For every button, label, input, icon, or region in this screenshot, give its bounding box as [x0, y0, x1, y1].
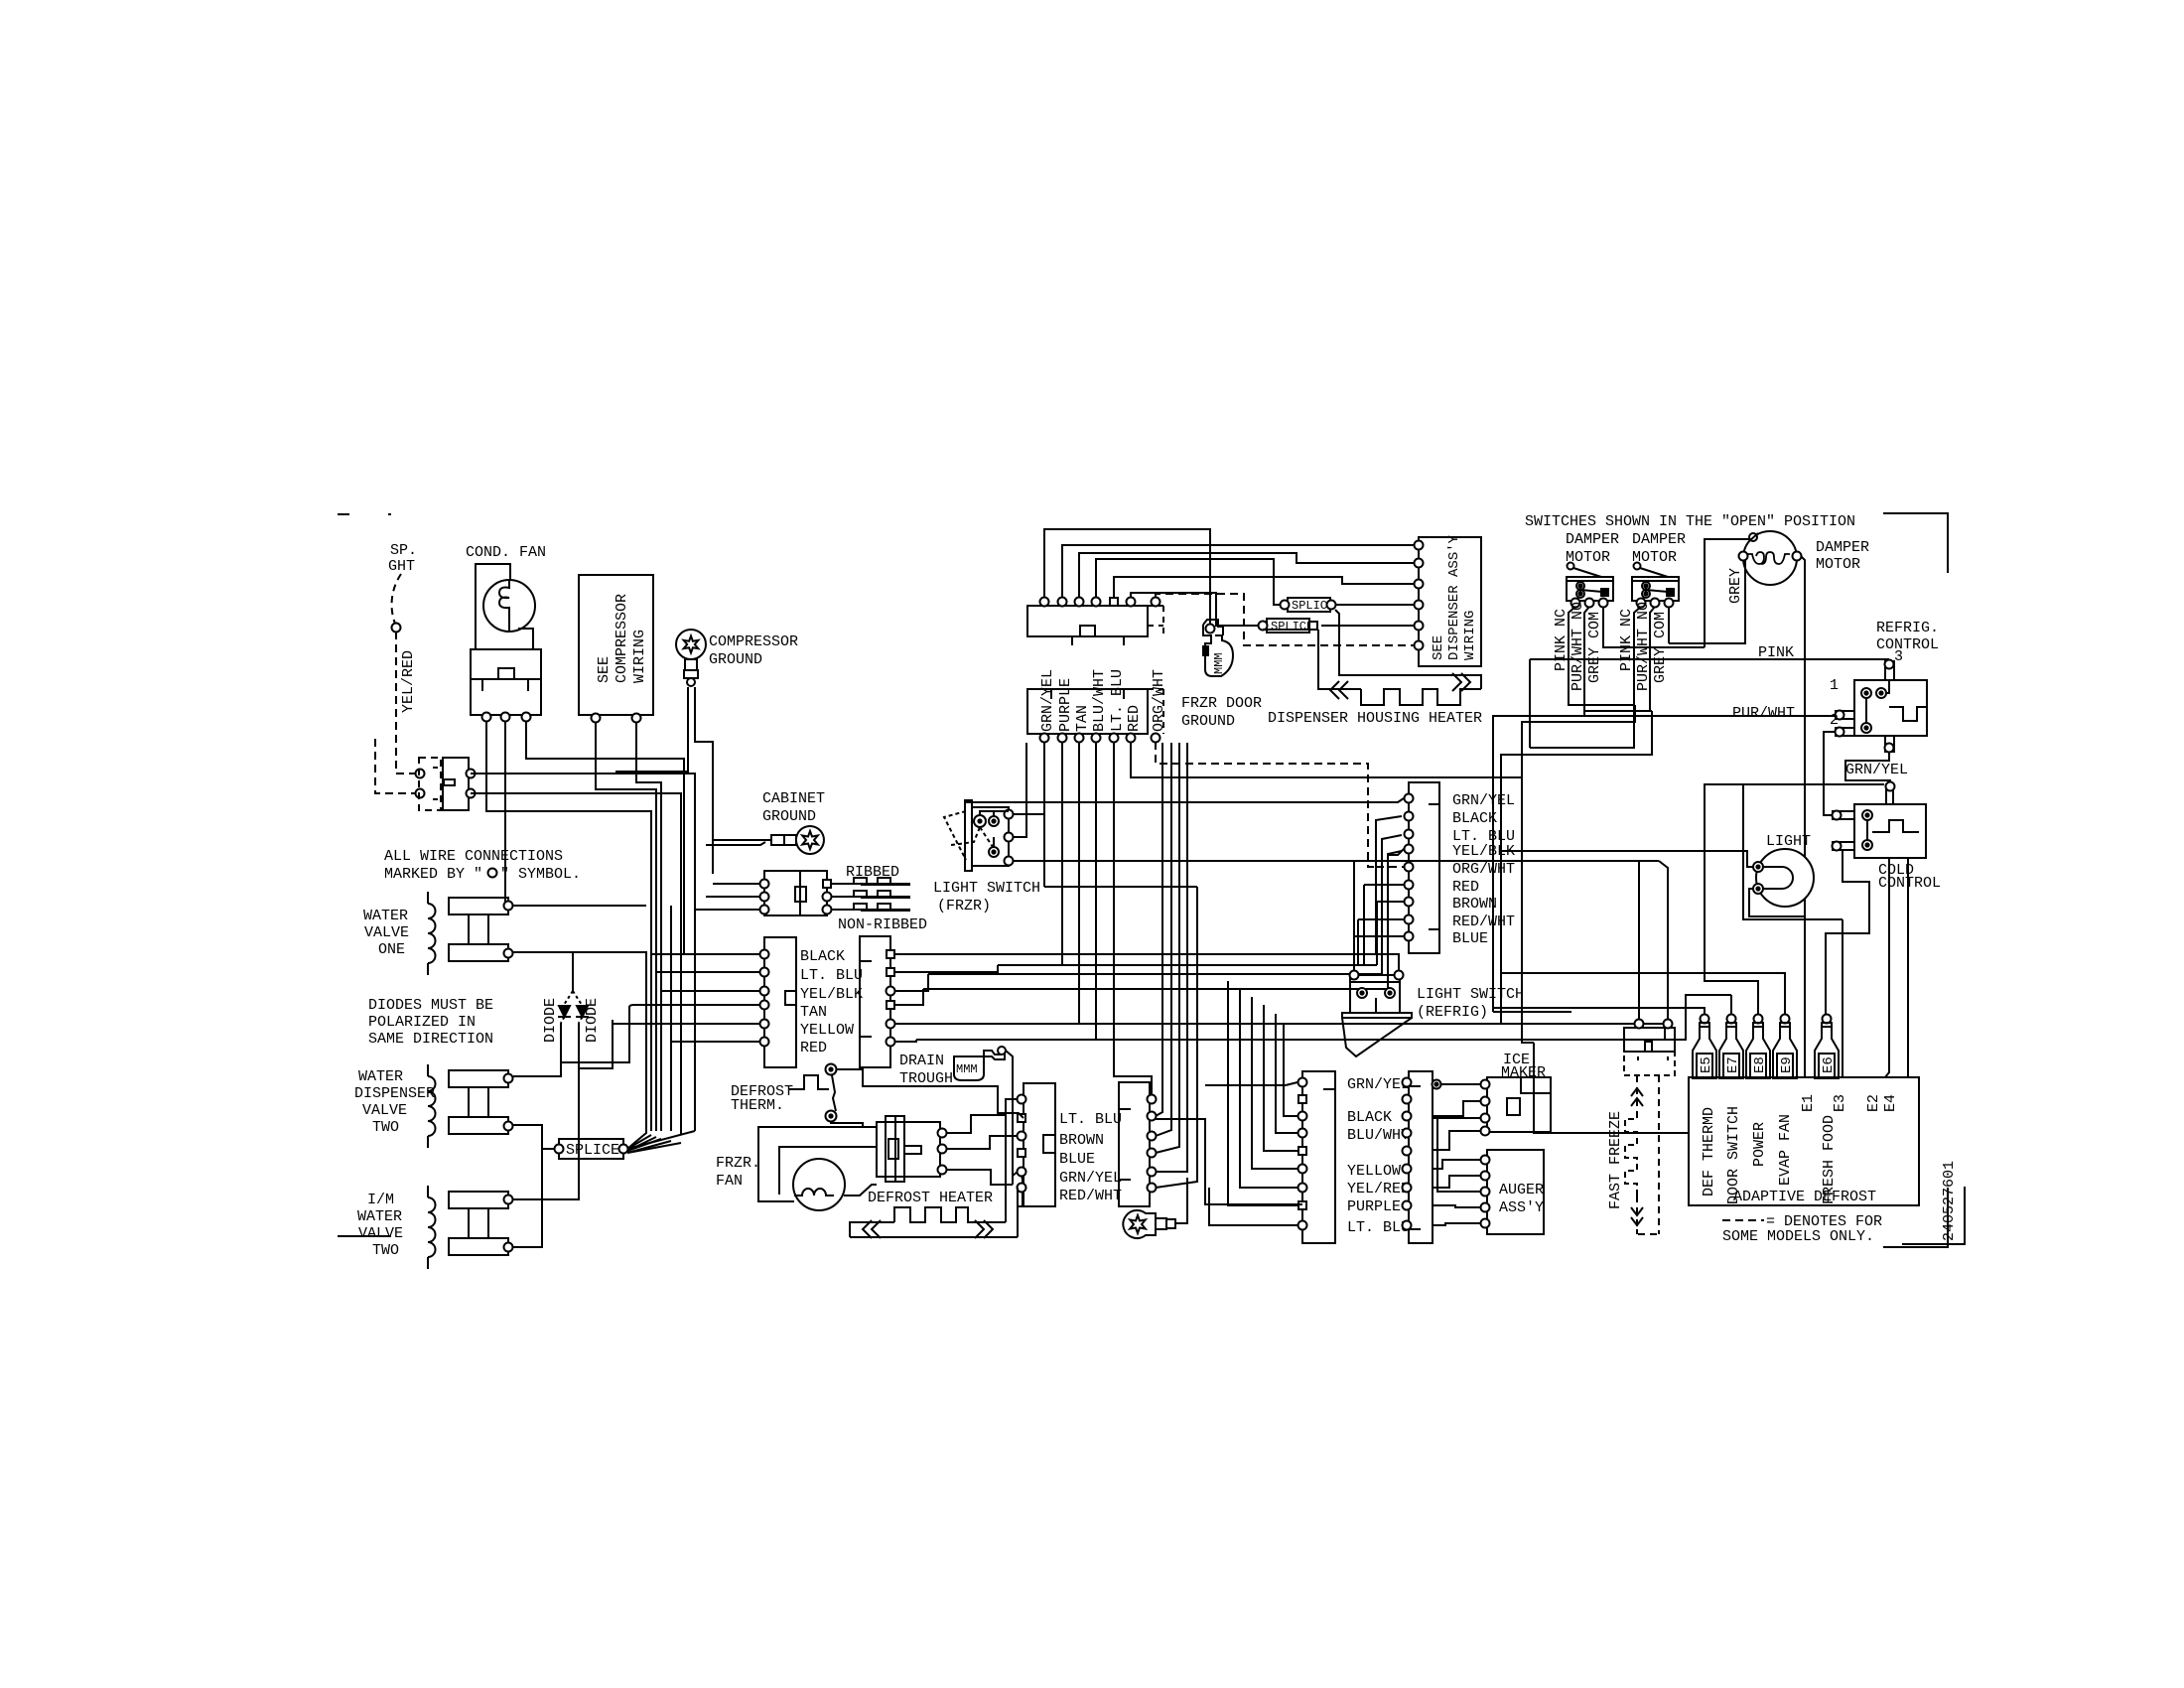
dispenser pin 6: [1415, 641, 1424, 650]
svg-text:SPLICE: SPLICE: [566, 1142, 619, 1159]
ribbed wire bullets: [831, 878, 910, 912]
net label RED v: [1126, 705, 1143, 732]
wire light t2: [1749, 889, 1805, 916]
wire pin RED down: [1131, 742, 1522, 777]
label E4: [1882, 1094, 1899, 1112]
label DEF THERMD: [1701, 1107, 1717, 1196]
defrost therm contacts: [826, 1064, 837, 1122]
lsf inner pin 1: [974, 815, 986, 827]
wire yellow link: [613, 1020, 615, 1024]
disp switch dashed terminal 2: [416, 789, 425, 798]
svg-text:E2: E2: [1865, 1094, 1882, 1112]
wire bc in 5: [1264, 1005, 1297, 1151]
line cord connector: [764, 871, 827, 915]
svg-text:ORG/WHT: ORG/WHT: [1151, 669, 1167, 732]
wire pin LT.BLU down: [1114, 742, 1152, 1095]
label BLACK bc: [1347, 1109, 1392, 1126]
dhB tick 1: [1119, 1108, 1131, 1110]
wire damper3 left: [1669, 560, 1745, 643]
wire sw2 t1: [1530, 607, 1641, 748]
right B pin 2: [887, 968, 894, 976]
wire heater plug bottom up: [1018, 1176, 1023, 1237]
evap fan ground lug: [1123, 1210, 1175, 1238]
svg-text:CONTROL: CONTROL: [1876, 636, 1939, 653]
label PINK NC 1: [1553, 609, 1570, 671]
damper motor 3 terminal slash: [1749, 533, 1758, 541]
label PINK NC 2: [1618, 609, 1635, 671]
label PUR/WHT NO 2: [1635, 602, 1652, 691]
part number 240527601: [1941, 1161, 1958, 1241]
wire GRN/YEL jog: [1845, 752, 1890, 782]
svg-text:E5: E5: [1699, 1056, 1714, 1073]
svg-text:MAKER: MAKER: [1501, 1064, 1546, 1081]
svg-text:POLARIZED IN: POLARIZED IN: [368, 1014, 476, 1031]
label SEE DISPENSER ASS'Y WIRING: [1431, 534, 1478, 660]
rc step: [1889, 707, 1927, 721]
wire v1206 up: [1196, 887, 1198, 1053]
bcA pin 5: [1298, 1147, 1306, 1155]
fast freeze dashed resistor: [1625, 1112, 1637, 1196]
splice left terminal 2: [619, 1145, 628, 1154]
cond fan relay tick 2: [527, 679, 529, 691]
label NON-RIBBED: [838, 916, 927, 933]
dh connector B: [1119, 1082, 1150, 1206]
label PURPLE bc: [1347, 1198, 1401, 1215]
wire to line cord pin3: [695, 909, 760, 911]
adaptive defrost box: [1689, 1077, 1919, 1205]
ice pin 2: [1481, 1097, 1490, 1106]
label GREY COM 1: [1586, 612, 1603, 683]
disp light switch body: [443, 758, 469, 810]
heater plug terminal 2: [938, 1145, 947, 1154]
label PUR/WHT NO 1: [1570, 602, 1586, 691]
label SPLICE 2: [1292, 599, 1334, 613]
wire lsr t1 up: [1353, 861, 1355, 971]
svg-text:DISPENSER ASS'Y: DISPENSER ASS'Y: [1446, 534, 1462, 660]
wire 1533 vertical: [1522, 777, 1534, 1043]
auger pin 5: [1481, 1219, 1490, 1228]
frame tick bottom-left: [338, 1235, 391, 1237]
dhB pin 1: [1148, 1095, 1157, 1104]
label YEL/BLK rc: [1452, 843, 1515, 860]
label COLD CONTROL: [1878, 862, 1941, 892]
label WATER DISPENSER VALVE TWO: [354, 1068, 435, 1136]
svg-text:LIGHT: LIGHT: [1766, 833, 1811, 850]
rc pin BLUE: [1405, 932, 1414, 941]
label ORG/WHT rc: [1452, 861, 1515, 878]
label WATER VALVE ONE: [363, 908, 409, 958]
rc pin YEL/BLK: [1405, 845, 1414, 854]
wire E3 long: [1842, 919, 1843, 1077]
lsr terminal 2: [1395, 971, 1404, 980]
svg-text:RED: RED: [800, 1040, 827, 1056]
label E3: [1832, 1094, 1848, 1112]
line cord pin 1: [760, 880, 832, 889]
heater plug body: [877, 1116, 940, 1182]
svg-text:FRZR.: FRZR.: [716, 1155, 760, 1172]
lower box dashed ext: [1148, 689, 1163, 734]
bcA pin 2: [1298, 1095, 1306, 1103]
wire relay pin2b up: [1664, 1024, 1666, 1040]
left A pin RED: [760, 1038, 769, 1047]
wire IMWV bottom: [513, 1149, 542, 1247]
cond fan frame right: [518, 629, 533, 649]
svg-text:E7: E7: [1725, 1056, 1741, 1073]
wire WV1 bottom: [513, 952, 573, 991]
svg-text:DISPENSER HOUSING HEATER: DISPENSER HOUSING HEATER: [1268, 710, 1482, 727]
terminal blade E7: [1719, 1015, 1743, 1079]
defrost relay pin 2: [1664, 1020, 1673, 1029]
right harness connector B: [860, 936, 890, 1067]
splice2 terminal R: [1327, 601, 1336, 610]
wire dhB2 up: [1156, 743, 1162, 1116]
wire mid h7: [1377, 902, 1402, 965]
lsf inner pin 2: [989, 816, 999, 826]
svg-text:DEF THERMD: DEF THERMD: [1701, 1107, 1717, 1196]
upper pin TAN: [1075, 598, 1084, 607]
svg-text:BROWN: BROWN: [1452, 896, 1497, 913]
wire B1: [894, 953, 937, 955]
upper pin PURPLE: [1058, 598, 1067, 607]
wire to line cord pin1: [713, 883, 760, 885]
heater chevrons right: [1452, 673, 1470, 691]
svg-text:E6: E6: [1821, 1056, 1837, 1073]
lsr terminal 1: [1350, 971, 1359, 980]
wire bc in 1: [1205, 1082, 1297, 1085]
svg-text:WIRING: WIRING: [631, 630, 648, 683]
light switch frzr wedge: [944, 811, 966, 860]
dispenser pin 2: [1415, 559, 1424, 568]
wire comp t2 down: [636, 722, 661, 1131]
label GRN/YEL rc: [1452, 792, 1515, 809]
lsf inner wiring: [980, 811, 1009, 846]
wire ice 1: [1433, 1080, 1482, 1089]
svg-text:GROUND: GROUND: [1181, 713, 1235, 730]
wire E9 feeder: [1501, 973, 1785, 1019]
upper pin LT.BLU: [1110, 598, 1118, 606]
wire mid h3: [928, 835, 1402, 974]
cold control top stub: [1886, 782, 1895, 805]
lsr inner tick: [1375, 998, 1377, 1013]
svg-text:FRZR DOOR: FRZR DOOR: [1181, 695, 1262, 712]
lsf inner pin 3: [989, 847, 999, 857]
wire run PURPLE top: [1062, 545, 1419, 597]
label YELLOW bc: [1347, 1163, 1401, 1180]
svg-text:ADAPTIVE DEFROST: ADAPTIVE DEFROST: [1733, 1189, 1876, 1205]
wire damper3 right down: [1801, 556, 1805, 1077]
wire lsf right3: [1013, 860, 1659, 862]
wire E8 feeder: [1705, 784, 1884, 1019]
line cord pin 2: [760, 893, 832, 902]
left A pin YEL/BLK: [760, 987, 769, 996]
label YEL/RED bc: [1347, 1181, 1410, 1197]
wire B6: [894, 1040, 916, 1042]
wire WDV2 bottom: [513, 1125, 554, 1149]
svg-text:3: 3: [1894, 648, 1903, 665]
svg-text:SOME MODELS ONLY.: SOME MODELS ONLY.: [1722, 1228, 1874, 1245]
label GRN/YEL dh: [1059, 1170, 1122, 1187]
dhA notch: [1043, 1135, 1055, 1153]
wire pin BLU/WHT down: [1095, 742, 1097, 1040]
defrost therm blade: [832, 1075, 836, 1111]
svg-text:ASS'Y: ASS'Y: [1499, 1199, 1544, 1216]
wire B4: [894, 989, 923, 1005]
wire therm top: [836, 1069, 1024, 1118]
wire rc left trunk: [1376, 820, 1399, 972]
auger pin 2: [1481, 1172, 1490, 1181]
svg-text:E9: E9: [1779, 1056, 1795, 1073]
splice3 terminal L: [1259, 622, 1268, 631]
wire auger 4: [1433, 1205, 1481, 1207]
label GREY COM 2: [1652, 612, 1669, 683]
upper box dashed ext: [1148, 606, 1163, 636]
wire drain trough: [1006, 1051, 1013, 1185]
bcB pin 3: [1403, 1112, 1412, 1121]
svg-text:I/M: I/M: [367, 1192, 394, 1208]
cond fan relay notch: [498, 668, 514, 679]
svg-text:TWO: TWO: [372, 1119, 399, 1136]
label DIODE 1: [542, 998, 559, 1043]
svg-text:WATER: WATER: [358, 1068, 403, 1085]
fast freeze dashed wire 1: [1631, 1075, 1643, 1112]
frzr fan loop outer: [758, 1127, 877, 1201]
disp light switch terminal A: [467, 770, 476, 778]
ice maker box: [1487, 1077, 1551, 1132]
dispenser pin 4: [1415, 601, 1424, 610]
wire auger 3: [1437, 1118, 1481, 1192]
label LT. BLU rc: [1452, 828, 1515, 845]
wire dhB6 up: [1156, 1053, 1197, 1188]
label REFRIG. CONTROL: [1876, 620, 1939, 653]
lsf right pin 3: [1005, 857, 1014, 866]
svg-text:FAST FREEZE: FAST FREEZE: [1607, 1111, 1624, 1209]
wire trunk 671: [471, 774, 695, 1131]
disp switch stub dash 1: [433, 767, 443, 769]
wire ice 4: [1433, 1131, 1481, 1150]
svg-text:DIODES MUST BE: DIODES MUST BE: [368, 997, 493, 1014]
cond fan relay upper box: [471, 649, 541, 679]
wire bc in 3: [1284, 1023, 1297, 1116]
wire pin GRN/YEL down: [1043, 742, 1045, 887]
wire E7 up: [1730, 995, 1732, 1019]
heater plug terminal 3: [938, 1166, 947, 1175]
label BROWN rc: [1452, 896, 1497, 913]
bcA pin 4: [1298, 1129, 1307, 1138]
svg-text:GRN/YEL: GRN/YEL: [1845, 762, 1908, 778]
wire B3: [894, 974, 928, 991]
wire auger 1: [1433, 1160, 1481, 1169]
wire rc ORG/WHT dashed: [1376, 866, 1404, 868]
wire plug t2: [946, 1136, 1018, 1149]
rc tick 1: [1429, 803, 1439, 805]
wire run LT.BLU top: [1114, 577, 1419, 597]
svg-text:DRAIN: DRAIN: [899, 1053, 944, 1069]
frzr harness upper box: [1027, 606, 1148, 636]
svg-text:LIGHT SWITCH: LIGHT SWITCH: [933, 880, 1040, 897]
label BLUE rc: [1452, 930, 1488, 947]
splice box 3 lower: [1267, 619, 1309, 633]
note DIODES: [368, 997, 493, 1048]
upper pin ORG/WHT dashed: [1152, 598, 1160, 607]
upper ticks: [1072, 636, 1124, 645]
label RIBBED: [846, 864, 899, 881]
label EVAP FAN: [1777, 1114, 1794, 1186]
frame dot top-left: [388, 513, 391, 515]
svg-text:TAN: TAN: [1074, 705, 1091, 732]
svg-text:GREY: GREY: [1727, 568, 1744, 604]
damper leader 1: [1568, 563, 1602, 578]
svg-text:SAME DIRECTION: SAME DIRECTION: [368, 1031, 493, 1048]
wire pin PURPLE down: [1061, 742, 1063, 965]
svg-text:LT. BLU: LT. BLU: [1059, 1111, 1122, 1128]
cond fan motor circle: [483, 580, 535, 632]
drain trough symbol: [954, 1047, 1006, 1080]
svg-text:TROUGH: TROUGH: [899, 1070, 953, 1087]
wire run BLU/WHT top: [1096, 559, 1281, 605]
wire to cabinet ground: [713, 839, 771, 841]
line cord pin 3: [760, 906, 832, 914]
label DRAIN TROUGH: [899, 1053, 953, 1087]
svg-text:DAMPER: DAMPER: [1816, 539, 1869, 556]
svg-text:PUR/WHT: PUR/WHT: [1732, 705, 1795, 722]
wire rc RED/WHT: [1358, 918, 1404, 920]
auger pin 4: [1481, 1203, 1490, 1212]
wire lsf right1: [1013, 814, 1044, 887]
frame tick top-left: [338, 513, 349, 515]
disp light terminal: [392, 624, 401, 633]
wire 1504 vertical: [1492, 716, 1494, 1012]
label BLACK rc: [1452, 810, 1497, 827]
cabinet ground lug: [771, 826, 824, 854]
wire compressor ground 1: [615, 687, 688, 772]
wire trunk 686: [471, 793, 681, 1135]
cc inner pins: [1862, 810, 1872, 850]
frzr door ground symbol: [1203, 620, 1233, 676]
svg-text:PINK NC: PINK NC: [1618, 609, 1635, 671]
bcB pin 9: [1403, 1221, 1412, 1230]
svg-text:BLUE: BLUE: [1059, 1151, 1095, 1168]
wire mid h1: [1376, 816, 1402, 954]
svg-text:YEL/RED: YEL/RED: [400, 650, 417, 713]
svg-text:ALL WIRE CONNECTIONS: ALL WIRE CONNECTIONS: [384, 848, 563, 865]
wire relay t2 down: [505, 721, 513, 906]
svg-text:E4: E4: [1882, 1094, 1899, 1112]
wire light t1 left: [1501, 851, 1753, 867]
dhA pin 6: [1018, 1184, 1026, 1193]
svg-text:GRN/YEL: GRN/YEL: [1059, 1170, 1122, 1187]
svg-text:FAN: FAN: [716, 1173, 743, 1190]
right B pin 4: [887, 1001, 894, 1009]
svg-text:RED/WHT: RED/WHT: [1059, 1188, 1122, 1204]
bcA pin 3: [1298, 1112, 1307, 1121]
svg-text:GRN/YEL: GRN/YEL: [1039, 669, 1056, 732]
svg-text:BLACK: BLACK: [1347, 1109, 1392, 1126]
compressor box terminal 1: [592, 714, 601, 723]
part number bracket: [1902, 1187, 1965, 1244]
rc pin LT.BLU: [1405, 830, 1414, 839]
heater chevrons left: [1330, 681, 1348, 699]
wire run 961: [937, 953, 1376, 955]
wire auger 5: [1433, 1223, 1481, 1225]
right B tick 2: [860, 1036, 872, 1038]
label FAST FREEZE: [1607, 1111, 1624, 1209]
svg-text:GROUND: GROUND: [762, 808, 816, 825]
svg-text:BLU/WHT: BLU/WHT: [1091, 669, 1108, 732]
frzr fan loop inner: [779, 1147, 877, 1195]
frzr harness upper notch: [1080, 626, 1095, 636]
note DENOTES dashed: [1722, 1219, 1764, 1221]
wire PINK: [1530, 659, 1888, 664]
wire bc in 7: [1240, 989, 1297, 1188]
disp light dashed arc: [392, 574, 401, 624]
svg-text:GHT: GHT: [388, 558, 415, 575]
svg-text:DIODE: DIODE: [542, 998, 559, 1043]
cond fan relay terminal 2: [501, 713, 510, 722]
compressor ground lug: [676, 630, 706, 686]
wire purwht left: [1493, 711, 1584, 1008]
svg-text:2: 2: [1830, 712, 1839, 729]
bcA pin 6: [1298, 1165, 1307, 1174]
wire sw1 t3: [1603, 607, 1705, 647]
rc tick 2: [1429, 928, 1439, 930]
splice fan-in: [627, 1131, 695, 1153]
label BROWN dh: [1059, 1132, 1104, 1149]
svg-text:SWITCHES SHOWN IN THE "OPEN" P: SWITCHES SHOWN IN THE "OPEN" POSITION: [1525, 513, 1855, 530]
wire mid h6: [916, 995, 1731, 1040]
splice box left: [559, 1139, 623, 1159]
upper pin BLU/WHT: [1092, 598, 1101, 607]
wire cc top feeder: [1725, 783, 1884, 785]
wire YELLOW from diodes: [579, 1020, 613, 1068]
wire auger 2: [1433, 1176, 1481, 1188]
label BLU/WHT bc: [1347, 1127, 1410, 1144]
svg-text:WATER: WATER: [357, 1208, 402, 1225]
lower pin LT.BLU: [1110, 734, 1119, 743]
lower pin PURPLE: [1058, 734, 1067, 743]
lsr inner pin 2: [1385, 988, 1395, 998]
wire pink vert: [1529, 659, 1531, 748]
svg-text:AUGER: AUGER: [1499, 1182, 1544, 1198]
label RED rc: [1452, 879, 1479, 896]
wire trunk 676: [670, 906, 672, 1131]
right B pin 3: [887, 987, 895, 996]
wire sw2 t3: [1668, 607, 1670, 643]
cold control pin1 stub: [1833, 811, 1855, 820]
label TAN: [800, 1004, 827, 1021]
svg-text:VALVE: VALVE: [364, 924, 409, 941]
big connector A: [1302, 1071, 1335, 1243]
left A pin TAN: [760, 1001, 769, 1010]
wire E5 run: [1493, 1008, 1705, 1019]
svg-text:BLUE: BLUE: [1452, 930, 1488, 947]
right B tick 1: [860, 960, 872, 962]
cond fan frame left: [476, 564, 510, 649]
label DIODE 2: [584, 998, 601, 1043]
dhB pin 3: [1148, 1132, 1157, 1141]
terminal blade E6: [1815, 1015, 1839, 1079]
svg-text:E3: E3: [1832, 1094, 1848, 1112]
ice pin 1: [1481, 1080, 1490, 1089]
note DENOTES: [1722, 1213, 1882, 1245]
label YEL/BLK: [800, 986, 863, 1003]
wire refrig pin2: [1824, 732, 1836, 815]
svg-text:PURPLE: PURPLE: [1347, 1198, 1401, 1215]
svg-text:CABINET: CABINET: [762, 790, 825, 807]
splice2 terminal L: [1281, 601, 1290, 610]
dh connector A: [1024, 1083, 1055, 1206]
wire ORG/WHT dashed loop: [1156, 742, 1376, 867]
svg-text:GREY COM: GREY COM: [1586, 612, 1603, 683]
